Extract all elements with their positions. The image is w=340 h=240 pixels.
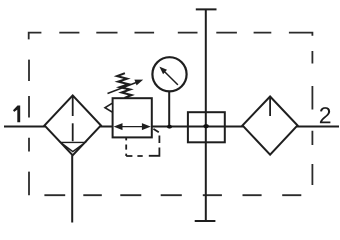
- junction dot in branch block: [203, 124, 209, 128]
- regulator adjustment spring (zigzag): [117, 73, 132, 98]
- branch block (manifold square): [188, 112, 225, 142]
- port label 1: [13, 106, 20, 123]
- gauge needle: [159, 67, 178, 85]
- filter element line (upper): [72, 96, 74, 117]
- regulator R1 body (square): [113, 98, 152, 137]
- enclosure right side dashes: [311, 51, 313, 185]
- filter F1 body (diamond): [45, 96, 101, 156]
- filter water trap triangle: [61, 142, 86, 151]
- regulator pilot feedback line (dashed): [126, 129, 159, 156]
- wire: vertical branch line: [205, 9, 207, 221]
- lubricator L1 body (diamond): [243, 97, 298, 155]
- regulator relief vent triangle: [105, 103, 113, 112]
- port label 2: [320, 107, 330, 123]
- wire: filter outlet to regulator: [100, 126, 114, 128]
- branch line top terminator: [196, 8, 217, 10]
- wire: condensate drain line: [71, 155, 73, 222]
- lubricator drip line: [269, 97, 271, 117]
- wire: regulator to branch block to lubricator: [151, 126, 244, 128]
- pressure gauge G1 (circle): [152, 57, 186, 91]
- filter element line (lower): [72, 123, 74, 141]
- regulator adjustment arrow: [108, 80, 144, 94]
- wire: port 1 inlet line: [4, 126, 46, 128]
- wire: gauge stem: [168, 92, 170, 127]
- enclosure (dashed service-unit frame), top side: [29, 33, 313, 40]
- enclosure bottom side dashes: [44, 194, 301, 196]
- branch line bottom terminator: [195, 220, 216, 222]
- wire: port 2 outlet line: [297, 126, 340, 128]
- junction dot at gauge stem: [167, 125, 173, 129]
- enclosure left side dashes: [28, 60, 30, 196]
- regulator flow arrow (double-headed): [114, 123, 151, 130]
